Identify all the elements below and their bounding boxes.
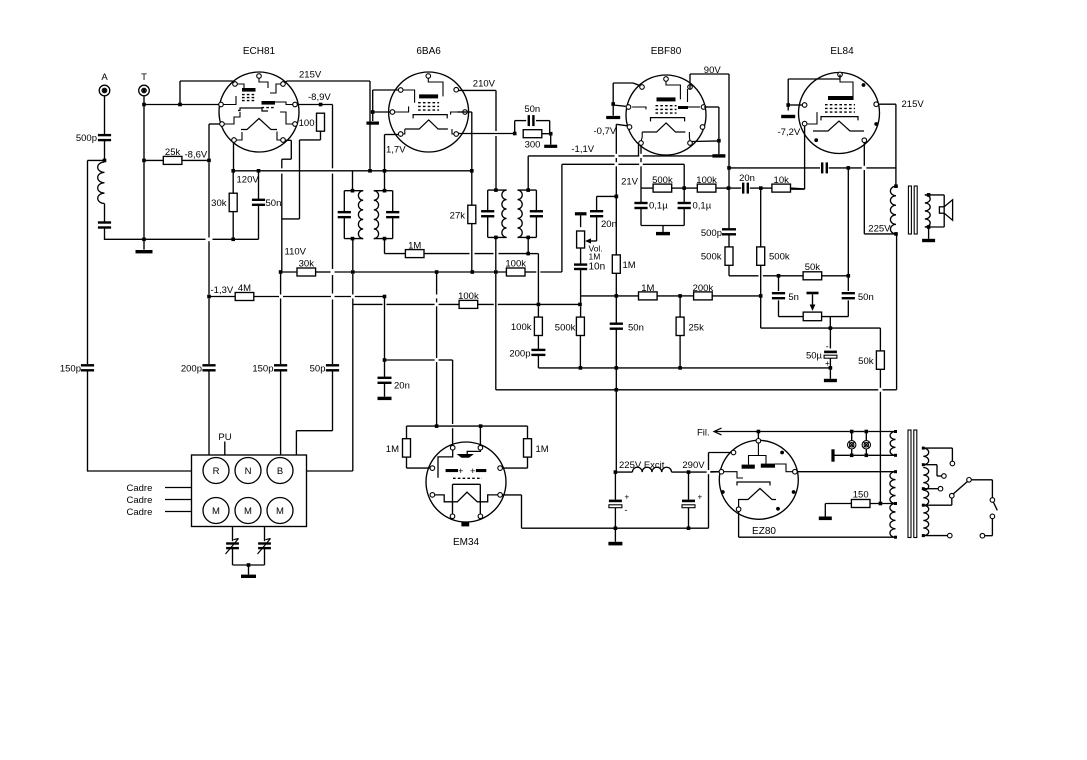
- wire 210V drop to IF2: [495, 90, 497, 190]
- EM34 bottom pin bar: [461, 522, 469, 526]
- svg-text:+: +: [625, 493, 630, 502]
- EBF80 internal wire BR pin: [688, 132, 691, 141]
- wire 100ohm bottom jog to grid-return line: [282, 131, 321, 219]
- EBF80 internal wire BL pin: [641, 132, 642, 141]
- EZ80 internal top pin wire left: [749, 456, 759, 465]
- junction tuning caps: [247, 563, 251, 567]
- junction 150/50k node: [879, 502, 883, 506]
- wire rail y171 to 27k: [471, 171, 473, 206]
- IF transformer 1 secondary tuning capacitor: [386, 212, 399, 217]
- wire 110V rail right end up: [561, 164, 563, 272]
- wire lamp drops: [852, 432, 867, 456]
- socket M circle: [203, 498, 229, 524]
- terminal T (earth): [139, 85, 150, 96]
- wire 27k bottom to 110V rail: [471, 224, 473, 272]
- ground 6BA6 g3: [366, 122, 379, 125]
- EBF80 anode bar: [657, 97, 676, 101]
- wire OT bottom to rail y390 (225V B+): [896, 234, 898, 390]
- wire 50n y276 chain: [822, 276, 849, 317]
- junction IF2 AVC: [526, 252, 530, 256]
- svg-text:50p: 50p: [310, 364, 326, 375]
- svg-text:-8,6V: -8,6V: [185, 150, 208, 161]
- wire R25k to -1,3V vertical: [182, 159, 209, 161]
- wire AVC rail: [385, 253, 538, 255]
- ground 20n EM34: [378, 397, 392, 400]
- wire x729 500p section: [728, 168, 730, 247]
- wire 20n EM34 to ground: [384, 383, 386, 397]
- EL84 unused pins: [814, 83, 878, 142]
- junction 290V node: [687, 470, 691, 474]
- 6BA6 internal wire BL pin: [401, 129, 405, 134]
- wire x280 vertical 150p line: [280, 272, 282, 456]
- capacitor 500p x729: [722, 229, 736, 234]
- svg-text:200p: 200p: [509, 349, 530, 360]
- svg-text:1M: 1M: [536, 444, 549, 455]
- junction EBF80 ground node: [611, 102, 615, 106]
- wire rail y328: [761, 327, 881, 329]
- wire 21V rail: [641, 187, 805, 190]
- potentiometer tone body: [803, 312, 821, 321]
- svg-text:110V: 110V: [285, 247, 307, 258]
- output transformer secondary taps: [927, 193, 931, 229]
- IF transformer 2 terminal junctions: [494, 188, 530, 239]
- wire rail y304: [353, 303, 580, 305]
- svg-text:300: 300: [525, 140, 541, 151]
- svg-text:-: -: [625, 505, 628, 515]
- EM34 deflector bars: [446, 469, 487, 472]
- svg-text:30k: 30k: [299, 259, 315, 270]
- resistor 500k 21V rail: [653, 184, 672, 192]
- svg-text:B: B: [277, 466, 283, 477]
- svg-text:-1,1V: -1,1V: [571, 144, 594, 155]
- EBF80 cathode line: [651, 118, 685, 122]
- resistor 25k vertical: [676, 317, 684, 335]
- junction 20n right: [759, 186, 763, 190]
- resistor 100k vertical x538: [534, 317, 542, 335]
- capacitor 20n coupling: [743, 183, 748, 194]
- wire rail B to 500k/100k node: [562, 164, 684, 188]
- tube ECH81 envelope: [219, 72, 299, 152]
- wire tuning cap stub x264.5: [264, 527, 266, 542]
- rail y171 (120V plate rail): [233, 170, 472, 172]
- EZ80 filament: [739, 489, 776, 507]
- svg-text:0,1µ: 0,1µ: [649, 201, 668, 212]
- output transformer primary: [890, 186, 896, 234]
- IF transformer 1 primary coil: [358, 191, 363, 239]
- svg-text:50n: 50n: [524, 104, 540, 115]
- ECH81 internal wire LL: [224, 112, 240, 124]
- wire EL84 plate to OT bottom: [864, 143, 896, 234]
- EZ80 unused pins: [721, 451, 796, 511]
- IF transformer 2 secondary coil: [518, 190, 523, 237]
- wire EM34 grid branch y360: [385, 360, 453, 445]
- tube EL84 envelope: [799, 73, 880, 154]
- wire AVC vertical to 20n EM34: [384, 297, 386, 378]
- EM34 pins: [430, 445, 502, 518]
- svg-text:+: +: [458, 466, 463, 476]
- resistor 25k: [163, 156, 182, 164]
- svg-text:R: R: [213, 466, 220, 477]
- resistor 1M AVC: [405, 250, 424, 258]
- junction 6BA6 ground loop: [371, 110, 375, 114]
- capacitor 10n: [574, 265, 587, 269]
- wire 290V to EZ80 L pin: [710, 471, 719, 473]
- EM34 internal wire TL: [438, 450, 453, 478]
- EZ80 internal right wire: [775, 464, 793, 472]
- junction EZ80 top pin on Fil line: [757, 430, 761, 434]
- IF transformer 1 primary tuning capacitor: [338, 212, 351, 217]
- wire PSU first filter cap top: [616, 471, 632, 473]
- capacitor 50n cathode 6BA6: [529, 115, 534, 126]
- ECH81 internal wire top pin: [259, 78, 268, 88]
- svg-text:50n: 50n: [858, 292, 874, 303]
- wire pot to 10n: [580, 248, 582, 264]
- mains transformer secondary winding top: [890, 432, 895, 456]
- wire y168 feedback line: [729, 167, 897, 169]
- ground EBF80 diode: [712, 154, 725, 157]
- junction x209 4M rail: [207, 295, 211, 299]
- wire OT secondary to speaker: [925, 195, 944, 227]
- junction 225V excit left: [614, 470, 618, 474]
- junction 50n top on rail y171: [257, 169, 261, 173]
- svg-text:150p: 150p: [60, 364, 81, 375]
- wire EM34 anode rail y426: [407, 425, 528, 427]
- svg-text:90V: 90V: [704, 65, 722, 76]
- wire tap1 to contact: [923, 448, 952, 461]
- resistor 500k x729: [725, 247, 733, 265]
- svg-text:EL84: EL84: [830, 46, 854, 57]
- capacitor 50n x616: [610, 324, 623, 329]
- ground 6BA6 cathode network: [544, 145, 557, 148]
- junction screen drop on rail y171: [470, 169, 474, 173]
- capacitor 20n volume: [590, 211, 603, 216]
- resistor 500k x760: [757, 247, 765, 265]
- junction 200k right: [759, 294, 763, 298]
- junction 4M rail to AVC vertical: [383, 295, 387, 299]
- tube EM34 envelope: [426, 442, 506, 522]
- resistor 150: [851, 500, 870, 508]
- IF transformer 1 terminal junctions: [351, 189, 387, 241]
- resistor 30k ECH81: [229, 193, 237, 211]
- wire x760 vertical: [760, 188, 762, 328]
- ground EL84: [781, 115, 795, 118]
- svg-text:6BA6: 6BA6: [416, 46, 441, 57]
- wire grid rail y81 to ECH81 TL pin: [180, 81, 235, 105]
- ECH81 pins: [219, 74, 298, 143]
- EL84 pins: [802, 72, 878, 142]
- terminal bar volume top: [575, 212, 587, 215]
- junction 110V rail left end: [279, 270, 283, 274]
- EL84 cathode line: [821, 117, 858, 121]
- IF transformer 2 primary coil: [502, 190, 507, 237]
- junction EBF80 diode ground: [717, 139, 721, 143]
- resistor 27k: [468, 205, 476, 223]
- ECH81 grid row 4: [262, 107, 276, 109]
- EZ80 cathode line: [737, 482, 770, 486]
- wire rail y368: [538, 367, 830, 369]
- potentiometer Vol 1M body: [577, 231, 585, 248]
- junction lamps bottom: [850, 454, 868, 458]
- junction 30k top on rail y171: [231, 169, 235, 173]
- svg-text:5n: 5n: [788, 292, 799, 303]
- wire 100k x538 to 200p: [537, 336, 539, 350]
- junction x848 on y168: [847, 166, 851, 170]
- EBF80 filament: [642, 123, 685, 132]
- wire stub antenna node to left drop: [88, 159, 105, 161]
- contact c3: [938, 486, 943, 491]
- resistor 30k 110V rail: [297, 268, 316, 276]
- EBF80 grid row 1: [656, 105, 677, 107]
- wire coil to series cap: [104, 204, 106, 223]
- wire IF1 bottom-right to AVC rail: [384, 239, 386, 254]
- dial lamp at x866.3: [862, 441, 870, 449]
- svg-text:27k: 27k: [450, 211, 466, 222]
- wire PSU common rail y528: [522, 453, 732, 529]
- switch blade mains: [993, 502, 997, 510]
- wire 25k chain: [679, 296, 681, 368]
- socket N circle: [235, 458, 261, 484]
- wire EBF80 TL ground loop: [613, 83, 640, 116]
- 6BA6 grid row 3: [418, 109, 439, 111]
- ground EBF80: [606, 116, 620, 119]
- capacitor 5n: [772, 293, 785, 298]
- svg-text:215V: 215V: [902, 99, 925, 110]
- svg-text:10n: 10n: [589, 262, 606, 273]
- contact c1: [950, 461, 955, 466]
- variable capacitor arrow x232.5: [226, 539, 239, 555]
- 6BA6 filament: [405, 120, 448, 129]
- ECH81 grid row 1: [242, 94, 256, 96]
- wire tap5 to contact: [923, 535, 947, 537]
- speaker: [939, 200, 952, 220]
- junction 30k bottom on rail y239: [231, 238, 235, 242]
- EM34 grid row: [453, 477, 482, 479]
- dial lamp at x851.7: [848, 441, 856, 449]
- contact c7: [990, 514, 995, 519]
- wire 50u bottom: [829, 358, 831, 379]
- wire tone wiper stem: [812, 294, 814, 305]
- capacitor electrolytic filter 1: [609, 500, 622, 508]
- svg-text:+: +: [698, 493, 703, 502]
- EL84 filament: [813, 121, 864, 131]
- junction x729 on y168 line: [727, 166, 731, 170]
- ECH81 internal wire BL: [236, 132, 242, 140]
- variable capacitor x264.5: [258, 544, 271, 549]
- resistor 1M y296: [639, 292, 658, 300]
- wire EBF80 R pin ground: [692, 107, 719, 154]
- svg-text:Cadre: Cadre: [127, 483, 153, 494]
- wire PU stub: [224, 442, 226, 456]
- 6BA6 grid row 1: [418, 102, 439, 104]
- wire ECH81 BL pin to 30k: [233, 142, 235, 171]
- capacitor antenna series: [98, 223, 111, 228]
- svg-text:290V: 290V: [682, 460, 705, 471]
- svg-text:-: -: [826, 341, 829, 351]
- svg-text:500p: 500p: [76, 133, 97, 144]
- wire x616 to 1M: [615, 196, 617, 255]
- resistor 50k x880: [876, 351, 884, 369]
- capacitor 150p x280: [274, 365, 287, 370]
- wire c5 to c6: [971, 480, 992, 498]
- svg-text:N: N: [245, 466, 252, 477]
- ECH81 internal wire TR: [270, 84, 281, 93]
- ECH81 triode anode bar: [242, 88, 256, 92]
- resistor 300: [523, 130, 542, 138]
- output transformer secondary: [925, 195, 930, 227]
- IF transformer 2 primary loop wires: [488, 190, 507, 237]
- wire EL84 top pin ground path: [788, 75, 840, 111]
- svg-text:500k: 500k: [652, 175, 673, 186]
- wire EL84 grid drop: [791, 126, 805, 189]
- resistor 200k: [694, 292, 713, 300]
- wire x616 to rail y390: [615, 368, 617, 390]
- ground tuning caps: [241, 575, 256, 578]
- svg-text:+: +: [470, 466, 475, 476]
- capacitor 0,1u first: [634, 203, 647, 208]
- 6BA6 internal wire TL pin: [401, 90, 415, 103]
- 6BA6 internal wire L pin: [395, 106, 409, 112]
- svg-text:100k: 100k: [696, 175, 717, 186]
- junction 5n top: [777, 274, 781, 278]
- resistor 100k rail y304: [459, 300, 478, 308]
- svg-text:20n: 20n: [394, 381, 410, 392]
- svg-text:50n: 50n: [628, 323, 644, 334]
- junction dots on T line: [142, 103, 146, 241]
- IF transformer 1 secondary loop wires: [374, 191, 393, 239]
- wire 6BA6 BR pin to 50n/300: [458, 133, 515, 135]
- resistor 100 ohm: [317, 113, 325, 131]
- wire IF1 primary feed from rail y171: [352, 171, 354, 191]
- wire 50n vertical: [258, 171, 260, 240]
- capacitor 200p: [202, 365, 215, 370]
- EBF80 internal wire TR pin: [687, 89, 689, 102]
- output transformer core: [908, 186, 917, 234]
- mains transformer primary winding B: [923, 468, 928, 536]
- wire IF2 secondary top to rail A: [527, 156, 529, 190]
- wire 4M rail: [209, 296, 385, 298]
- ECH81 internal wire R: [275, 102, 293, 105]
- svg-text:50n: 50n: [266, 198, 282, 209]
- wire EM34 TR pin feed: [479, 426, 481, 445]
- svg-text:500k: 500k: [701, 252, 722, 263]
- ground 0,1u caps: [656, 232, 670, 235]
- resistor 500k x580: [576, 317, 584, 335]
- svg-text:-7,2V: -7,2V: [778, 127, 801, 138]
- EBF80 grid row 3: [656, 112, 677, 114]
- output transformer primary taps: [894, 184, 898, 235]
- wire EZ80 top pin to Fil: [757, 432, 759, 439]
- svg-text:215V: 215V: [299, 70, 322, 81]
- EL84 internal wire top: [840, 77, 853, 100]
- wire 50u top: [829, 328, 831, 348]
- wire EBF80 signal grid drop: [639, 145, 642, 189]
- 6BA6 pins: [390, 74, 467, 137]
- wire antenna cap to ground rail: [105, 228, 145, 240]
- EM34 filament zigzag: [435, 492, 498, 502]
- wire 90V drop x729: [728, 74, 730, 168]
- capacitor 50n tone: [842, 293, 855, 298]
- variable capacitor x232.5: [226, 544, 239, 549]
- antenna coil L1: [98, 162, 105, 204]
- wire ECH81 R pin to -8,9V line: [297, 104, 332, 106]
- resistor 1M EM34 right: [524, 439, 532, 457]
- mains transformer primary winding A: [923, 448, 928, 465]
- wire x209 vertical down (-1,3V line): [208, 162, 210, 455]
- contact c5: [967, 478, 972, 483]
- junction 500k/100k node: [682, 186, 686, 190]
- svg-text:EM34: EM34: [453, 537, 480, 548]
- svg-text:210V: 210V: [473, 79, 496, 90]
- EBF80 internal wire R pin: [688, 106, 700, 108]
- contact c2: [942, 474, 947, 479]
- capacitor 200p x538: [531, 350, 545, 355]
- 6BA6 cathode line: [413, 115, 447, 119]
- junction 300 right: [549, 132, 553, 136]
- wire T down to ground: [143, 97, 145, 250]
- junction tone bottom on rail y328: [829, 326, 833, 330]
- svg-text:1M: 1M: [623, 260, 636, 271]
- svg-text:1M: 1M: [408, 241, 421, 252]
- resistor 100k 110V rail: [506, 268, 525, 276]
- contact c4: [950, 493, 955, 498]
- junction IF1 drop on 110V rail: [351, 270, 355, 274]
- ECH81 heptode anode bar: [262, 101, 276, 105]
- svg-text:150p: 150p: [252, 364, 273, 375]
- wire EL84 screen to B+: [879, 104, 896, 186]
- svg-text:Cadre: Cadre: [127, 507, 153, 518]
- junction rail y304 at x580: [578, 303, 582, 307]
- EBF80 internal wire L pin: [632, 107, 646, 109]
- node antenna coil top: [103, 159, 107, 163]
- svg-text:-0,7V: -0,7V: [594, 126, 617, 137]
- wire 50k x880 chain: [879, 328, 881, 503]
- svg-text:21V: 21V: [621, 177, 639, 188]
- wire tuning cap bottom x264.5: [264, 548, 266, 565]
- ECH81 grid row 2: [242, 97, 256, 99]
- EL84 anode bar: [828, 96, 853, 100]
- field coil excitation: [632, 467, 671, 472]
- svg-text:225V: 225V: [868, 224, 891, 235]
- junction 50n/300 left: [513, 132, 517, 136]
- EZ80 pins: [719, 439, 797, 512]
- resistor 50k tone: [803, 272, 822, 280]
- ground below T: [136, 250, 153, 253]
- Fil arrow head: [714, 428, 722, 435]
- socket R circle: [203, 458, 229, 484]
- wire IF1 secondary top to 6BA6 grid: [384, 135, 386, 191]
- svg-text:120V: 120V: [237, 175, 260, 186]
- svg-text:M: M: [212, 506, 220, 517]
- resistor 4M: [235, 293, 254, 301]
- mains transformer core: [908, 430, 917, 538]
- capacitor 150p left drop: [81, 365, 94, 370]
- wire ground rail y239 segment right of T: [144, 238, 259, 240]
- ground speaker: [922, 239, 935, 242]
- resistor 100k 21V rail: [697, 184, 716, 192]
- IF transformer 2 secondary loop wires: [518, 190, 537, 237]
- mains transformer right taps: [922, 447, 925, 537]
- ECH81 cathode line: [238, 108, 268, 111]
- wire 1M x616 to rail y296: [615, 273, 617, 296]
- svg-text:50k: 50k: [858, 356, 874, 367]
- variable capacitor arrow x264.5: [258, 539, 271, 555]
- EBF80 internal wire top pin: [666, 81, 680, 99]
- svg-text:30k: 30k: [211, 198, 227, 209]
- svg-text:M: M: [244, 506, 252, 517]
- junction EM34 rail feed: [435, 424, 439, 428]
- wire ECH81 LL pin to x209 vertical: [209, 124, 220, 159]
- svg-text:A: A: [101, 72, 108, 83]
